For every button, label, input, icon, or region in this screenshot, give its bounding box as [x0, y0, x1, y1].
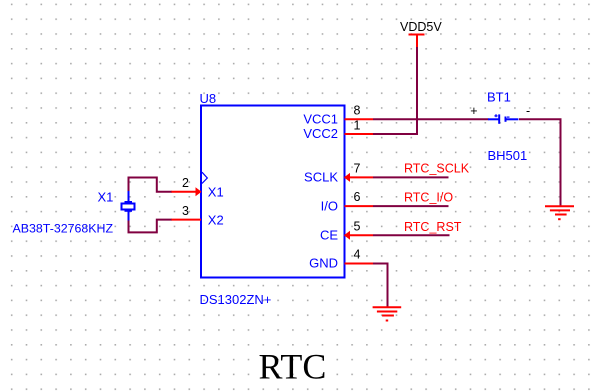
crystal X1 wire top route to pin 2: [129, 178, 172, 193]
crystal X1 symbol: [122, 191, 135, 221]
BH501 value label: [488, 148, 528, 163]
svg-text:BH501: BH501: [488, 148, 528, 163]
crystal X1 wire bottom route to pin 3: [129, 220, 172, 233]
net label RTC_SCLK: [404, 162, 470, 176]
AB38T-32768KHZ value label: [13, 222, 114, 236]
svg-text:DS1302ZN+: DS1302ZN+: [200, 292, 272, 307]
svg-text:VCC2: VCC2: [303, 126, 338, 141]
DS1302ZN+ value label: [200, 292, 272, 307]
wire battery minus to ground: [519, 119, 561, 206]
svg-text:RTC_RST: RTC_RST: [404, 220, 462, 234]
net label RTC_RST: [404, 220, 462, 234]
svg-text:VCC1: VCC1: [303, 112, 338, 127]
pin 3 X2: [171, 204, 224, 228]
IC U8 DS1302 body: [201, 106, 345, 278]
svg-text:6: 6: [354, 190, 361, 204]
svg-text:4: 4: [354, 248, 361, 262]
pin 7 SCLK: [304, 162, 373, 185]
svg-text:+: +: [470, 104, 477, 118]
pin 2 X1: [171, 176, 224, 200]
svg-text:3: 3: [182, 204, 189, 218]
svg-text:RTC_SCLK: RTC_SCLK: [404, 162, 470, 176]
pin 4 GND: [309, 248, 373, 271]
title RTC: [259, 347, 327, 387]
svg-text:I/O: I/O: [321, 198, 338, 213]
svg-text:CE: CE: [320, 227, 338, 242]
svg-text:SCLK: SCLK: [304, 170, 338, 185]
wire pin1 to VDD vertical: [373, 47, 417, 135]
svg-text:1: 1: [354, 119, 361, 133]
svg-text:VDD5V: VDD5V: [400, 20, 442, 34]
svg-text:GND: GND: [309, 256, 338, 271]
svg-text:5: 5: [354, 219, 361, 233]
svg-text:RTC: RTC: [259, 347, 327, 387]
ground symbol below pin 4: [373, 307, 402, 320]
svg-text:8: 8: [354, 104, 361, 118]
X1 refdes label: [98, 190, 114, 205]
svg-text:-: -: [526, 104, 530, 118]
U8 refdes label: [200, 91, 217, 106]
pin 1 VCC2: [303, 119, 373, 142]
wire pin4 to ground: [373, 264, 388, 308]
wire pin5 net RTC_RST: [373, 234, 450, 236]
wire pin6 net RTC_I/O: [373, 205, 449, 207]
svg-text:X1: X1: [98, 190, 114, 205]
wire pin7 net RTC_SCLK: [373, 176, 449, 178]
svg-text:X2: X2: [208, 212, 224, 227]
power symbol VDD5V: [400, 20, 442, 47]
wire pin8 to battery plus: [373, 118, 489, 120]
svg-text:X1: X1: [208, 185, 224, 200]
svg-text:2: 2: [182, 176, 189, 190]
svg-text:BT1: BT1: [487, 90, 511, 105]
svg-text:AB38T-32768KHZ: AB38T-32768KHZ: [13, 222, 114, 236]
svg-text:U8: U8: [200, 91, 217, 106]
pin 8 VCC1: [303, 104, 373, 127]
svg-text:RTC_I/O: RTC_I/O: [404, 191, 453, 205]
pin 5 CE: [320, 219, 373, 242]
battery BT1: [470, 90, 530, 124]
pin 6 I/O: [321, 190, 373, 213]
net label RTC_I/O: [404, 191, 453, 205]
ground symbol right of battery: [545, 206, 574, 219]
clock edge marker on chip left edge: [202, 172, 207, 183]
svg-text:7: 7: [354, 162, 361, 176]
